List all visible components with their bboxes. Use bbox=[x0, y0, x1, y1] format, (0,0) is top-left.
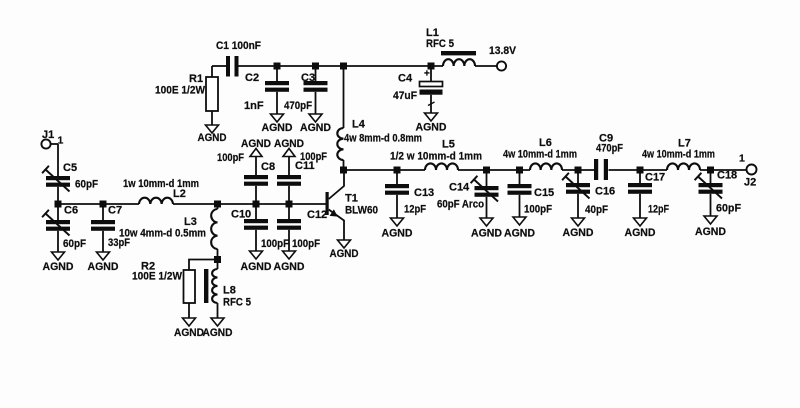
svg-text:47uF: 47uF bbox=[393, 90, 417, 102]
svg-text:1nF: 1nF bbox=[244, 100, 264, 112]
node C14 junction bbox=[483, 167, 490, 174]
node C13 junction bbox=[394, 167, 401, 174]
svg-text:AGND: AGND bbox=[241, 261, 272, 273]
svg-text:L3: L3 bbox=[184, 216, 197, 228]
node C2 junction bbox=[274, 63, 281, 70]
capacitor C17 bbox=[628, 174, 652, 219]
R1 label bbox=[155, 73, 206, 97]
svg-text:470pF: 470pF bbox=[284, 100, 312, 112]
svg-text:C18: C18 bbox=[717, 170, 737, 182]
node C16 junction bbox=[575, 167, 582, 174]
svg-text:100pF: 100pF bbox=[217, 152, 244, 164]
node C17 junction bbox=[637, 167, 644, 174]
ground AGND above C8 bbox=[241, 138, 271, 157]
node C7 junction bbox=[100, 201, 107, 208]
svg-text:1/2 w 10mm-d 1mm: 1/2 w 10mm-d 1mm bbox=[390, 151, 482, 163]
node C5 C6 junction bbox=[55, 201, 62, 208]
svg-text:L8: L8 bbox=[223, 285, 236, 297]
svg-text:4w 8mm-d 0.8mm: 4w 8mm-d 0.8mm bbox=[344, 133, 422, 145]
inductor L2 bbox=[139, 198, 173, 204]
inductor L3 bbox=[211, 208, 217, 257]
svg-text:C8: C8 bbox=[261, 161, 275, 173]
svg-text:C5: C5 bbox=[63, 162, 77, 174]
capacitor C14 variable bbox=[471, 174, 499, 219]
node C11 C12 junction bbox=[286, 201, 293, 208]
svg-text:AGND: AGND bbox=[382, 228, 413, 240]
resistor R2 bbox=[184, 260, 218, 319]
capacitor C11 bbox=[277, 157, 301, 201]
node L3 top junction bbox=[214, 201, 221, 208]
capacitor C9 bbox=[594, 159, 608, 180]
L8 label bbox=[223, 285, 251, 309]
svg-text:AGND: AGND bbox=[416, 122, 447, 134]
ground AGND below C13 bbox=[382, 218, 413, 240]
svg-text:C13: C13 bbox=[414, 187, 434, 199]
node C4 L1 junction bbox=[428, 63, 435, 70]
node C8 C10 junction bbox=[253, 201, 260, 208]
inductor L1 bbox=[443, 59, 475, 66]
ground AGND below R1 bbox=[198, 125, 227, 144]
ground AGND below C4 bbox=[416, 113, 447, 134]
C8 label bbox=[217, 152, 275, 173]
C12 label bbox=[292, 209, 327, 250]
svg-text:+: + bbox=[424, 69, 430, 80]
svg-text:10w 4mm-d 0.5mm: 10w 4mm-d 0.5mm bbox=[119, 228, 206, 240]
svg-text:AGND: AGND bbox=[695, 226, 726, 238]
inductor L5 bbox=[425, 163, 458, 170]
inductor L8 bbox=[212, 263, 217, 318]
svg-text:C15: C15 bbox=[534, 187, 554, 199]
ground AGND above C11 bbox=[274, 138, 304, 157]
L2 label bbox=[123, 178, 199, 200]
svg-text:AGND: AGND bbox=[625, 227, 656, 239]
svg-text:L4: L4 bbox=[352, 119, 366, 131]
C18 label bbox=[716, 170, 741, 215]
wire top supply rail bbox=[212, 65, 497, 67]
svg-text:100E 1/2W: 100E 1/2W bbox=[155, 85, 206, 97]
svg-text:L2: L2 bbox=[173, 188, 186, 200]
svg-text:13.8V: 13.8V bbox=[489, 45, 517, 57]
capacitor C12 bbox=[277, 208, 301, 252]
svg-text:100pF: 100pF bbox=[261, 238, 289, 250]
C14 label bbox=[437, 182, 484, 211]
svg-text:C12: C12 bbox=[307, 209, 327, 221]
svg-text:AGND: AGND bbox=[504, 228, 535, 240]
svg-text:AGND: AGND bbox=[563, 227, 594, 239]
svg-text:L6: L6 bbox=[539, 137, 552, 149]
svg-text:1w 10mm-d 1mm: 1w 10mm-d 1mm bbox=[123, 178, 199, 190]
L1 label bbox=[426, 27, 454, 50]
svg-text:AGND: AGND bbox=[174, 327, 204, 339]
connector J1 bbox=[41, 129, 63, 149]
inductor L4 bbox=[337, 66, 343, 167]
svg-text:AGND: AGND bbox=[262, 122, 293, 134]
C15 label bbox=[524, 187, 554, 216]
svg-text:J2: J2 bbox=[744, 177, 756, 189]
C7 label bbox=[108, 205, 130, 250]
ground AGND below C17 bbox=[625, 218, 656, 239]
C9 label bbox=[596, 133, 623, 155]
ground AGND below C10 bbox=[241, 251, 272, 273]
svg-text:4w 10mm-d 1mm: 4w 10mm-d 1mm bbox=[642, 149, 715, 161]
ground AGND below C12 bbox=[274, 251, 305, 273]
L3 label bbox=[119, 216, 206, 240]
terminal 13.8V bbox=[489, 45, 517, 71]
svg-text:100pF: 100pF bbox=[524, 204, 552, 216]
ground AGND below C16 bbox=[563, 218, 594, 239]
svg-text:AGND: AGND bbox=[471, 228, 502, 240]
svg-text:J1: J1 bbox=[42, 129, 54, 141]
ground AGND below C2 bbox=[262, 114, 293, 134]
C11 label bbox=[295, 151, 327, 172]
ground AGND below T1 emitter bbox=[330, 240, 359, 260]
svg-text:C6: C6 bbox=[64, 205, 78, 217]
svg-text:AGND: AGND bbox=[88, 261, 119, 273]
node C15 junction bbox=[516, 167, 523, 174]
node collector junction bbox=[340, 167, 347, 174]
wire input line bbox=[58, 203, 326, 205]
svg-text:C4: C4 bbox=[398, 73, 413, 85]
capacitor C16 variable bbox=[562, 173, 590, 218]
R2 label bbox=[132, 261, 183, 283]
svg-text:60pF: 60pF bbox=[716, 203, 741, 215]
svg-text:100pF: 100pF bbox=[300, 151, 327, 163]
node C3 junction bbox=[312, 63, 319, 70]
capacitor C13 bbox=[385, 174, 409, 219]
L6 label bbox=[503, 137, 577, 161]
svg-text:C10: C10 bbox=[231, 209, 251, 221]
inductor L1 core bar bbox=[441, 51, 476, 55]
connector J2 bbox=[739, 153, 757, 189]
ground AGND below C14 bbox=[471, 218, 502, 240]
inductor L7 bbox=[667, 163, 700, 170]
capacitor C10 bbox=[244, 208, 268, 252]
svg-text:AGND: AGND bbox=[198, 132, 227, 144]
svg-text:RFC 5: RFC 5 bbox=[223, 297, 251, 309]
svg-text:C7: C7 bbox=[108, 205, 122, 217]
capacitor C2 bbox=[265, 66, 289, 114]
ground AGND below L8 bbox=[203, 318, 233, 339]
capacitor C1 bbox=[226, 56, 239, 77]
inductor L8 core bar bbox=[204, 269, 208, 303]
T1 label bbox=[345, 193, 378, 217]
svg-text:470pF: 470pF bbox=[596, 143, 623, 155]
svg-text:R1: R1 bbox=[189, 73, 203, 85]
capacitor C4 electrolytic bbox=[420, 66, 443, 113]
transistor T1 bbox=[326, 174, 345, 241]
C5 label bbox=[63, 162, 98, 191]
svg-text:AGND: AGND bbox=[43, 261, 74, 273]
C16 label bbox=[585, 186, 615, 217]
svg-text:RFC 5: RFC 5 bbox=[426, 38, 454, 50]
svg-text:C1 100nF: C1 100nF bbox=[216, 40, 261, 52]
svg-text:60pF: 60pF bbox=[63, 238, 86, 250]
svg-text:AGND: AGND bbox=[203, 327, 233, 339]
ground AGND below C7 bbox=[88, 252, 119, 273]
capacitor C7 bbox=[91, 208, 115, 253]
node L3 bottom junction bbox=[214, 256, 221, 263]
ground AGND below C6 bbox=[43, 252, 74, 273]
capacitor C6 variable bbox=[42, 208, 70, 253]
C17 label bbox=[645, 172, 669, 216]
svg-text:T1: T1 bbox=[345, 193, 358, 205]
node L4 branch bbox=[340, 63, 347, 70]
ground AGND below C15 bbox=[504, 217, 535, 240]
svg-text:C14: C14 bbox=[449, 182, 470, 194]
svg-text:60pF Arco: 60pF Arco bbox=[437, 199, 484, 211]
wire output line bbox=[344, 169, 747, 171]
svg-text:C17: C17 bbox=[645, 172, 665, 184]
C4 label bbox=[393, 73, 417, 103]
svg-text:C3: C3 bbox=[301, 72, 315, 84]
svg-text:4w 10mm-d 1mm: 4w 10mm-d 1mm bbox=[503, 149, 577, 161]
svg-text:AGND: AGND bbox=[300, 122, 331, 134]
capacitor C8 bbox=[244, 157, 268, 201]
ground AGND below C3 bbox=[300, 114, 331, 134]
svg-text:40pF: 40pF bbox=[585, 204, 608, 216]
C2 label bbox=[244, 72, 264, 112]
C3 label bbox=[284, 72, 315, 112]
L5 label bbox=[390, 139, 482, 163]
svg-text:C2: C2 bbox=[245, 72, 259, 84]
svg-text:1: 1 bbox=[739, 153, 745, 165]
svg-text:AGND: AGND bbox=[330, 248, 359, 260]
L4 label bbox=[344, 119, 422, 145]
svg-text:12pF: 12pF bbox=[404, 204, 426, 216]
resistor R1 bbox=[206, 66, 218, 125]
svg-text:100E 1/2W: 100E 1/2W bbox=[132, 271, 183, 283]
svg-text:C16: C16 bbox=[595, 186, 615, 198]
capacitor C3 bbox=[304, 66, 328, 114]
C13 label bbox=[404, 187, 434, 216]
svg-text:AGND: AGND bbox=[274, 261, 305, 273]
node C18 junction bbox=[707, 167, 714, 174]
inductor L6 bbox=[530, 163, 562, 170]
ground AGND below R2 bbox=[174, 318, 204, 339]
svg-text:12pF: 12pF bbox=[648, 204, 669, 216]
C10 label bbox=[231, 209, 289, 251]
svg-text:100pF: 100pF bbox=[292, 238, 320, 250]
C1 value label bbox=[216, 40, 261, 52]
ground AGND below C18 bbox=[695, 216, 726, 238]
L7 label bbox=[642, 138, 715, 161]
capacitor C18 variable bbox=[695, 173, 723, 216]
svg-text:60pF: 60pF bbox=[75, 179, 98, 191]
C6 label bbox=[63, 205, 86, 251]
capacitor C5 variable bbox=[42, 144, 70, 201]
capacitor C15 bbox=[508, 174, 532, 218]
svg-text:BLW60: BLW60 bbox=[345, 205, 378, 217]
svg-text:L5: L5 bbox=[442, 139, 455, 151]
